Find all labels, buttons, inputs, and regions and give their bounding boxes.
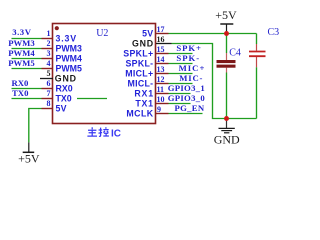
svg-text:6: 6 xyxy=(47,79,51,88)
pin 3 stub xyxy=(42,58,54,60)
svg-text:SPKL+: SPKL+ xyxy=(123,48,153,58)
svg-text:7: 7 xyxy=(47,89,51,98)
svg-text:GPIO3_0: GPIO3_0 xyxy=(168,93,206,103)
pin 2 stub xyxy=(42,48,54,50)
junction node at +5V rail xyxy=(224,31,229,36)
wire net RX0 (pin 6) xyxy=(12,88,42,90)
svg-text:TX0: TX0 xyxy=(12,88,29,98)
wire GND net from pin 16 down and along bottom xyxy=(172,44,257,119)
svg-text:3: 3 xyxy=(47,49,51,58)
svg-text:4: 4 xyxy=(47,59,51,68)
svg-text:MCLK: MCLK xyxy=(126,108,153,118)
wire net TX0 (pin 7) xyxy=(12,98,42,100)
pin 11 stub xyxy=(156,93,169,95)
wire stray segment on TX0 row inside IC xyxy=(77,98,107,100)
pin 17 stub xyxy=(156,33,169,35)
svg-text:16: 16 xyxy=(157,35,165,44)
pin 7 stub xyxy=(42,98,54,100)
svg-text:MIC+: MIC+ xyxy=(179,63,206,73)
wire +5V rail from pin 17 to C3 xyxy=(169,33,257,35)
svg-text:9: 9 xyxy=(157,105,161,114)
svg-text:U2: U2 xyxy=(96,28,108,39)
wire net SPK- (pin 14) xyxy=(169,63,193,65)
wire net GPIO3_0 (pin 10) xyxy=(169,103,191,105)
part type label 主 (of 主控IC) xyxy=(87,127,97,136)
svg-text:TX0: TX0 xyxy=(56,94,72,104)
part type label 控 (of 主控IC) xyxy=(99,127,109,136)
pin 4 stub xyxy=(42,68,54,70)
pin 15 stub xyxy=(156,53,169,55)
svg-text:14: 14 xyxy=(157,55,165,64)
svg-text:PWM4: PWM4 xyxy=(8,48,35,58)
pin 6 stub xyxy=(42,88,54,90)
svg-text:GND: GND xyxy=(55,74,77,84)
svg-text:8: 8 xyxy=(47,99,51,108)
svg-text:2: 2 xyxy=(47,39,51,48)
wire net GPIO3_1 (pin 11) xyxy=(169,93,191,95)
ground symbol GND xyxy=(214,119,240,147)
svg-text:SPKL-: SPKL- xyxy=(126,58,154,68)
pin 16 stub (black GND pin) xyxy=(156,43,172,45)
svg-text:RX0: RX0 xyxy=(12,78,30,88)
svg-text:1: 1 xyxy=(47,29,51,38)
wire net SPK+ (pin 15) xyxy=(169,53,193,55)
svg-text:RX1: RX1 xyxy=(134,88,154,98)
pin 1 stub xyxy=(42,38,54,40)
svg-text:+5V: +5V xyxy=(215,8,237,22)
pin 10 stub xyxy=(156,103,169,105)
pin 14 stub xyxy=(156,63,169,65)
wire net MIC+ (pin 13) xyxy=(169,73,193,75)
capacitor C3 xyxy=(249,34,266,119)
wire net PWM5 (pin 4) xyxy=(12,68,42,70)
power +5V symbol top xyxy=(215,8,237,32)
svg-text:MICL+: MICL+ xyxy=(125,68,153,78)
wire pin 8 to +5V power xyxy=(29,109,42,143)
svg-text:PWM3: PWM3 xyxy=(56,44,82,54)
svg-text:10: 10 xyxy=(157,95,165,104)
svg-text:12: 12 xyxy=(157,75,165,84)
svg-text:13: 13 xyxy=(157,65,165,74)
svg-text:SPK-: SPK- xyxy=(176,53,200,63)
svg-text:TX1: TX1 xyxy=(135,98,154,108)
svg-text:C3: C3 xyxy=(268,27,280,38)
svg-text:C4: C4 xyxy=(229,47,241,58)
svg-text:PWM5: PWM5 xyxy=(8,58,35,68)
wire net PG_EN (pin 9) xyxy=(169,113,203,115)
svg-text:5V: 5V xyxy=(142,28,153,38)
pin 9 stub xyxy=(156,113,169,115)
pin 13 stub xyxy=(156,73,169,75)
wire net MIC- (pin 12) xyxy=(169,83,193,85)
svg-text:+5V: +5V xyxy=(18,152,40,166)
junction node at GND rail xyxy=(224,116,229,121)
wire net PWM4 (pin 3) xyxy=(12,58,42,60)
svg-text:GND: GND xyxy=(132,38,154,48)
svg-text:5: 5 xyxy=(47,69,51,78)
pin 8 stub xyxy=(42,108,54,110)
pin 12 stub xyxy=(156,83,169,85)
svg-text:PG_EN: PG_EN xyxy=(175,103,205,113)
svg-text:SPK+: SPK+ xyxy=(176,43,201,53)
svg-text:IC: IC xyxy=(111,129,121,140)
svg-text:PWM5: PWM5 xyxy=(56,64,82,74)
IC U2 body rectangle xyxy=(53,24,156,124)
svg-text:17: 17 xyxy=(157,25,165,34)
svg-text:5V: 5V xyxy=(56,104,67,114)
svg-text:GND: GND xyxy=(214,133,240,147)
IC U2 pin-1 marker dot xyxy=(55,26,59,30)
power +5V symbol bottom-left xyxy=(18,142,40,165)
svg-text:11: 11 xyxy=(157,85,165,94)
svg-text:15: 15 xyxy=(157,45,165,54)
svg-text:3.3V: 3.3V xyxy=(56,34,78,44)
wire net 3.3V (pin 1) xyxy=(12,38,42,40)
svg-text:PWM4: PWM4 xyxy=(56,54,82,64)
svg-text:MIC-: MIC- xyxy=(179,73,203,83)
svg-text:PWM3: PWM3 xyxy=(8,38,35,48)
wire net PWM3 (pin 2) xyxy=(12,48,42,50)
svg-text:3.3V: 3.3V xyxy=(12,27,32,37)
svg-text:GPIO3_1: GPIO3_1 xyxy=(168,83,205,93)
svg-text:RX0: RX0 xyxy=(56,84,73,94)
svg-text:MICL-: MICL- xyxy=(127,78,153,88)
capacitor C4 xyxy=(217,34,236,119)
pin 5 stub (black GND pin) xyxy=(40,78,53,80)
